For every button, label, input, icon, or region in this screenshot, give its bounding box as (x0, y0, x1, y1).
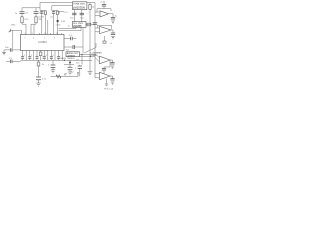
svg-text:1W: 1W (64, 74, 67, 76)
resistor R1 (21, 17, 23, 24)
capacitor C17 (43, 57, 46, 59)
wire rail drop B (52, 6, 58, 11)
resistor R2 (35, 17, 37, 24)
capacitor C18 (50, 57, 53, 59)
capacitor C5 (72, 13, 76, 15)
wire chain2 to pins (31, 24, 36, 34)
resistor R11 (57, 11, 59, 15)
resistor R7 zigzag (56, 75, 61, 78)
wire y76 right end tick (77, 73, 79, 77)
op-amp U2B (95, 26, 113, 33)
resistor R10 (45, 11, 47, 15)
ground U2A out (111, 21, 115, 23)
capacitor C12 (4, 48, 21, 52)
wire pin stub extra1 (38, 33, 40, 35)
wire U3A feedback (104, 60, 110, 69)
capacitor C25 (102, 69, 106, 71)
svg-text:5: 5 (25, 33, 26, 35)
ground x90 (88, 72, 93, 75)
svg-text:MIC: MIC (12, 24, 16, 26)
ground C22 (68, 70, 72, 75)
diode D1 (69, 60, 72, 67)
wire U2B feedback (98, 25, 112, 29)
svg-text:7: 7 (44, 37, 45, 39)
wire pin stub extra3 (61, 33, 63, 35)
svg-text:LM1893: LM1893 (38, 42, 47, 44)
capacitor C13 (6, 60, 21, 64)
svg-text:OSC: OSC (56, 25, 61, 27)
wire box3 to opamp lower (80, 56, 100, 62)
svg-text:+12V: +12V (100, 1, 106, 3)
ground C21 (51, 67, 55, 72)
svg-text:TONE CNTL: TONE CNTL (73, 4, 86, 6)
resistor R3 (89, 3, 91, 25)
wire top rail A (40, 2, 95, 4)
capacitor C7 (111, 18, 115, 20)
capacitor C24 (110, 63, 114, 65)
capacitor C15 (28, 57, 31, 59)
ground U2B out (111, 37, 114, 39)
capacitor C22 (68, 67, 73, 70)
wire pin stub short (47, 20, 49, 35)
wire U1 bottom pins (23, 51, 63, 61)
box3 label block (66, 52, 80, 57)
ground left (2, 50, 6, 55)
capacitor C10 (71, 37, 73, 41)
ground U3B out (111, 82, 114, 84)
box2 control block (72, 22, 86, 28)
svg-text:FIG 2-14: FIG 2-14 (104, 88, 113, 90)
wire top rail B (52, 5, 73, 7)
svg-text:10: 10 (44, 33, 46, 35)
capacitor C21 (51, 60, 56, 67)
wire long vertical x90 (89, 26, 91, 72)
svg-text:2: 2 (25, 37, 26, 39)
wire ground bus (21, 59, 93, 61)
wire long vertical x83 (82, 28, 84, 53)
svg-text:4: 4 (33, 37, 34, 39)
svg-text:COMP.: COMP. (91, 55, 98, 57)
capacitor C4 (52, 11, 55, 16)
wire C25 to U3B (103, 70, 105, 74)
wire chain-link top left (22, 7, 40, 9)
connector J1 input jack (9, 29, 22, 35)
svg-text:BASS TREBLE: BASS TREBLE (61, 57, 76, 60)
svg-text:9: 9 (54, 37, 55, 39)
wire compB bottom (54, 15, 58, 35)
IC U1 (21, 35, 65, 51)
wire right loop vertical (94, 3, 96, 78)
capacitor C26 (110, 79, 114, 81)
capacitor C3 (40, 11, 43, 16)
wire compA bottom (42, 15, 46, 35)
wire diagonal to right (84, 43, 96, 53)
capacitor C9 (93, 23, 97, 24)
wire lower bus (51, 75, 79, 77)
ground U3A out (111, 66, 114, 68)
wire U2A out drop (112, 14, 114, 18)
svg-text:0.047: 0.047 (38, 17, 44, 19)
wire box2 drops (59, 27, 81, 30)
resistor R5 (39, 52, 42, 60)
capacitor C19 (57, 57, 60, 59)
node dot a (81, 54, 82, 55)
capacitor C1 (20, 8, 25, 17)
wire stub below box3 (64, 63, 74, 65)
wire box2 right (86, 24, 95, 26)
node dot b (90, 56, 91, 57)
wire chain1 to pin (22, 24, 26, 34)
wire box3 to opamp upper (80, 55, 100, 58)
capacitor C20 (36, 77, 41, 80)
svg-text:10k: 10k (76, 60, 79, 62)
capacitor C14 (21, 57, 24, 59)
svg-text:LM1035N: LM1035N (73, 6, 85, 10)
wire U1 right pin b (64, 46, 83, 48)
wire U3B out drop (112, 76, 114, 79)
wire pin stub extra2 (50, 33, 52, 35)
svg-text:13: 13 (56, 33, 58, 35)
capacitor C27 (111, 33, 115, 35)
capacitor C2 (34, 8, 39, 17)
wire J2 drop (104, 36, 106, 41)
node blob osc (57, 20, 59, 22)
wire U2B out drop (112, 30, 114, 33)
node dot bus (64, 60, 65, 61)
ground U3B lower (105, 84, 108, 85)
op-amp U3B (95, 72, 113, 79)
svg-text:1u: 1u (115, 16, 117, 18)
wire x82 drop (81, 55, 83, 65)
op-amp U2A (95, 11, 113, 17)
capacitor C11 (73, 45, 75, 49)
capacitor C23 (78, 65, 82, 77)
wire U3B lower drop (106, 79, 108, 84)
wire left side pin (12, 30, 14, 48)
op-amp U3A (100, 56, 113, 64)
svg-text:1u: 1u (15, 13, 17, 15)
capacitor C6 (80, 13, 84, 15)
svg-text:1u: 1u (68, 25, 70, 27)
resistor R4 (87, 23, 91, 26)
box1 control block (72, 2, 87, 10)
wire box1 drop right (81, 10, 83, 22)
wire U3A out drop (112, 60, 114, 63)
wire rail drop A (40, 3, 45, 11)
wire U1 right pin a (64, 38, 77, 40)
svg-text:7: 7 (32, 33, 33, 35)
wire pin stub (57, 12, 64, 14)
capacitor C16 (36, 57, 39, 59)
wire U2A feedback (97, 9, 111, 12)
connector J2 out (103, 41, 106, 43)
resistor R6 (37, 60, 40, 77)
capacitor C8 (102, 3, 106, 9)
wire box1 drop left (73, 10, 75, 22)
ground C20 (36, 80, 40, 86)
